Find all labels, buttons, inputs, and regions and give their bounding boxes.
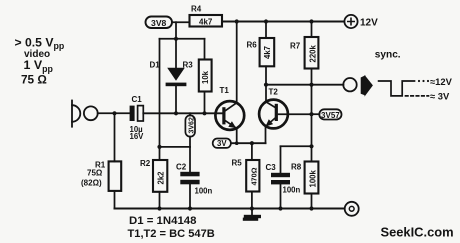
node junction dot T1 emitter: [235, 141, 239, 145]
wire T1 collector to rail: [236, 22, 238, 103]
wire T2 emitter down: [265, 126, 267, 143]
svg-text:R3: R3: [183, 61, 194, 70]
resistor R6 4k7: [247, 22, 275, 102]
resistor R5 470R: [232, 143, 260, 208]
node junction dot bias: [157, 145, 161, 149]
node junction dot R6 bottom sync: [264, 83, 268, 87]
svg-text:3V8: 3V8: [151, 18, 167, 28]
svg-text:R8: R8: [291, 163, 302, 172]
node junction dot C3 ground: [278, 206, 282, 210]
node junction dot C2 ground: [188, 206, 192, 210]
transistor T1 BC547B: [215, 86, 244, 130]
svg-text:100n: 100n: [195, 187, 213, 196]
resistor R2 2k2: [140, 39, 167, 209]
wire C1 to T1 base signal line: [143, 112, 222, 114]
svg-text:R2: R2: [140, 159, 151, 168]
capacitor C2 100n: [176, 147, 213, 209]
svg-text:10k: 10k: [201, 70, 210, 84]
resistor R3 10k: [183, 39, 212, 113]
svg-text:T1,T2 = BC 547B: T1,T2 = BC 547B: [128, 228, 215, 240]
node junction dot R5: [250, 141, 254, 145]
svg-text:C3: C3: [266, 163, 277, 172]
resistor R7 220k: [290, 22, 318, 85]
output 0V terminal: [345, 202, 359, 216]
input socket circle: [84, 106, 98, 120]
power +12V terminal: [344, 15, 378, 29]
wire +12V rail: [222, 21, 344, 23]
svg-text:T1: T1: [220, 86, 230, 95]
node junction dot R3 on base line: [202, 111, 206, 115]
wire ground rail: [115, 208, 345, 210]
wire sync output line: [266, 84, 343, 86]
svg-text:R5: R5: [232, 159, 243, 168]
input spec text block: [15, 35, 65, 86]
node junction dot R2 ground: [157, 206, 161, 210]
node junction dot sync R7: [309, 83, 313, 87]
svg-text:220k: 220k: [308, 44, 317, 62]
resistor R8 100k: [291, 162, 318, 209]
wire loop top horizontal: [160, 38, 205, 40]
svg-text:16V: 16V: [130, 132, 145, 141]
wire T1 emitter down: [236, 128, 238, 143]
transistor T2 BC547B: [259, 88, 288, 129]
node junction dot D1 on base line: [174, 111, 178, 115]
svg-text:C2: C2: [176, 163, 187, 172]
svg-text:R4: R4: [191, 5, 202, 14]
node 3V measuring oval: [213, 139, 231, 149]
svg-text:(82Ω): (82Ω): [81, 179, 102, 188]
node junction dot loop top: [174, 37, 178, 41]
svg-text:3V62: 3V62: [188, 117, 195, 133]
capacitor C3 100n: [266, 146, 312, 208]
node 3V62 measuring oval: [185, 113, 195, 147]
watermark SeekIC.com: [381, 225, 454, 240]
caption D1 = 1N4148: [129, 215, 196, 227]
wire 3V8 oval to R4: [172, 21, 190, 23]
wire base node down to R8: [311, 114, 313, 161]
resistor R4 4k7: [190, 5, 223, 27]
svg-text:75 Ω: 75 Ω: [21, 72, 47, 86]
caption T1,T2 = BC 547B: [128, 228, 215, 240]
svg-text:≈ 3V: ≈ 3V: [430, 90, 450, 101]
svg-text:C1: C1: [132, 95, 143, 104]
svg-text:100n: 100n: [283, 186, 301, 195]
node junction dot R8 ground: [309, 206, 313, 210]
svg-text:sync.: sync.: [375, 50, 401, 61]
svg-text:≈12V: ≈12V: [430, 76, 453, 87]
svg-text:4k7: 4k7: [199, 18, 213, 27]
svg-text:12V: 12V: [360, 18, 378, 29]
node junction dot rail R7: [309, 19, 313, 23]
node 3V8 measuring oval: [146, 17, 173, 29]
svg-text:R7: R7: [290, 42, 301, 51]
svg-text:D1 = 1N4148: D1 = 1N4148: [129, 215, 196, 227]
svg-text:3V: 3V: [217, 139, 227, 148]
node junction dot R5 ground: [250, 206, 254, 210]
diode D1 1N4148: [150, 39, 187, 113]
node junction dot T2 base: [309, 112, 313, 116]
node junction dot rail T1: [235, 19, 239, 23]
svg-text:4k7: 4k7: [263, 46, 272, 59]
wire R7 to T2 base node: [311, 85, 313, 115]
label sync.: [375, 50, 401, 61]
node junction dot rail R6: [264, 19, 268, 23]
node junction dot input: [112, 111, 116, 115]
wire T2 base: [279, 113, 312, 115]
svg-text:SeekIC.com: SeekIC.com: [381, 225, 454, 240]
sync waveform: [379, 76, 453, 102]
resistor R1 75R: [81, 113, 121, 208]
sync arrow: [361, 75, 373, 97]
svg-text:3V57: 3V57: [321, 111, 340, 120]
node junction dot C3 branch: [309, 144, 313, 148]
svg-text:100k: 100k: [308, 169, 317, 187]
svg-text:R6: R6: [247, 41, 258, 50]
capacitor C1 10u 16V: [130, 95, 145, 141]
wire emitter rail: [231, 142, 266, 144]
input plug symbol: [72, 101, 80, 127]
wire bias junction horizontal: [160, 146, 191, 148]
wire 3V8 node drop to loop: [175, 22, 177, 39]
svg-text:T2: T2: [269, 88, 279, 97]
wire input to C1: [98, 112, 130, 114]
svg-text:2k2: 2k2: [156, 171, 165, 185]
svg-text:75Ω: 75Ω: [87, 169, 103, 178]
sync output terminal: [343, 78, 356, 91]
node 3V57 measuring oval: [312, 109, 342, 120]
svg-text:470Ω: 470Ω: [249, 167, 258, 185]
ground symbol: [243, 209, 261, 221]
